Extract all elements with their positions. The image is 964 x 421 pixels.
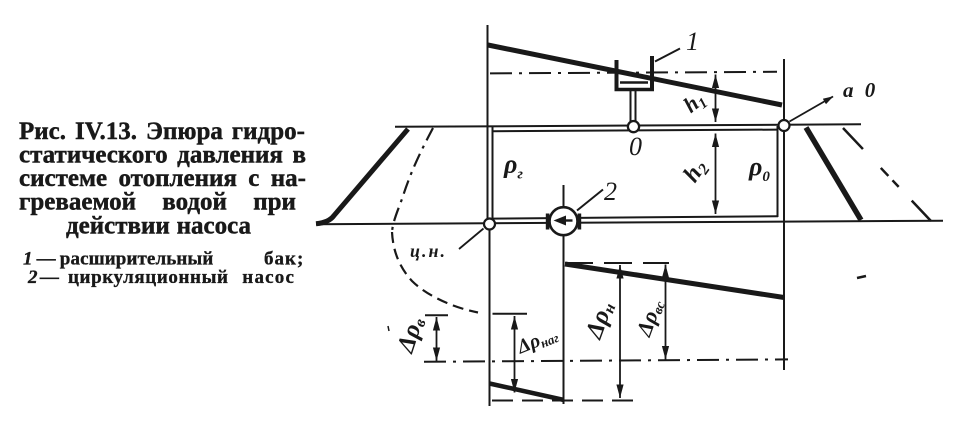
svg-text:a 0: a 0: [843, 78, 878, 102]
svg-text:ц.н.: ц.н.: [410, 241, 447, 261]
svg-text:Δρвс: Δρвс: [630, 295, 669, 341]
svg-text:2: 2: [604, 177, 617, 206]
svg-text:2—циркуляционныйнасос: 2—циркуляционныйнасос: [27, 267, 295, 288]
svg-text:Δρнаг: Δρнаг: [513, 322, 561, 359]
svg-text:0: 0: [629, 132, 642, 161]
svg-text:ρг: ρг: [503, 150, 523, 183]
svg-text:Δρв: Δρв: [392, 314, 430, 358]
svg-text:греваемой водой при: греваемой водой при: [19, 189, 296, 216]
svg-text:1: 1: [686, 27, 699, 56]
svg-text:ρ0: ρ0: [748, 152, 770, 185]
svg-text:действии насоса: действии насоса: [66, 213, 251, 240]
svg-text:h2: h2: [678, 155, 713, 189]
svg-text:Δρн: Δρн: [580, 298, 620, 344]
